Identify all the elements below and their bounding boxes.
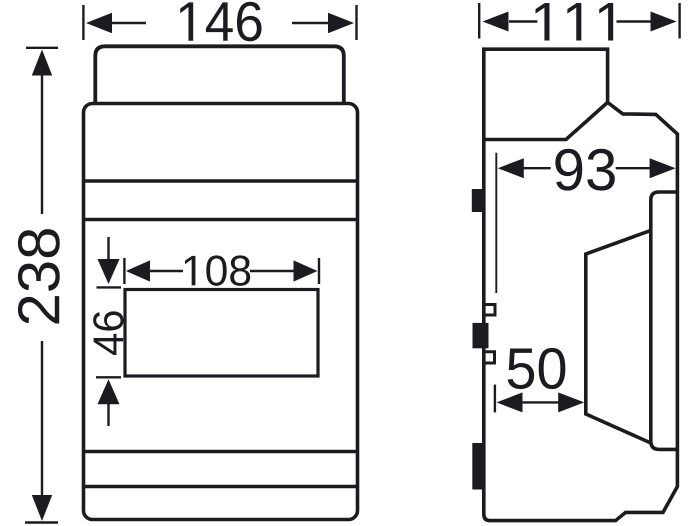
label 238 <box>18 229 60 323</box>
dim 111 arrow left <box>483 12 509 32</box>
rail line 2 <box>84 218 358 222</box>
dim 93 arrow right <box>650 158 676 178</box>
dim 146 tick left <box>82 5 84 40</box>
dim 146 arrow right <box>328 13 354 33</box>
dim 146 line left <box>111 22 146 24</box>
dim 50 tick <box>494 385 496 413</box>
side view cover strip <box>651 192 678 449</box>
wall tab 3 <box>472 443 483 490</box>
dim 111 line left <box>509 20 537 22</box>
dim 238 line top <box>41 74 43 214</box>
dim 50 arrow right <box>558 392 584 412</box>
dim 50 line <box>521 401 560 403</box>
dim 46 lower ext line <box>107 404 109 427</box>
dim 108 arrow right <box>294 260 318 281</box>
window cutout <box>125 290 318 377</box>
dim 238 line bottom <box>41 341 43 496</box>
notch 1 <box>484 305 495 316</box>
label 46 <box>93 311 123 355</box>
rail line 3 <box>84 450 358 454</box>
dim 46 upper ext line <box>107 237 109 260</box>
dim 146 tick right <box>355 5 357 40</box>
side view lid joint line <box>484 102 608 139</box>
label 93 <box>555 149 614 191</box>
side view outer profile <box>484 49 678 520</box>
wall tab 2 <box>473 323 489 348</box>
enclosure body (front view) <box>84 104 358 520</box>
rail line 1 <box>84 179 358 183</box>
dim 146 arrow left <box>86 13 112 33</box>
enclosure lid (front view) <box>95 46 343 103</box>
ext line 93 <box>495 153 497 293</box>
dim 146 line right <box>292 22 329 24</box>
dim 108 line left <box>149 270 183 272</box>
wall tab 1 <box>472 189 484 212</box>
dim 93 line left <box>523 167 551 169</box>
dim 46 arrow down <box>98 259 120 284</box>
dim 238 arrow down <box>32 495 52 521</box>
rail line 4 <box>84 485 358 489</box>
dim 93 line right <box>616 167 651 169</box>
label 146 <box>180 2 261 42</box>
dim 111 tick left <box>478 3 480 39</box>
dim 108 tick right <box>318 258 320 284</box>
dim 46 arrow up <box>98 379 120 404</box>
dim 238 tick bottom <box>25 521 58 523</box>
notch 2 <box>484 352 495 363</box>
label 50 <box>508 348 566 389</box>
dim 238 arrow up <box>32 50 52 76</box>
dim 238 tick top <box>26 47 58 49</box>
dim 108 tick left <box>123 258 125 284</box>
dim 108 line right <box>250 270 295 272</box>
label 111 <box>536 3 614 40</box>
dim 111 line right <box>617 20 652 22</box>
side view door trapezoid <box>586 230 651 443</box>
dim 111 tick right <box>678 3 680 39</box>
dim 50 arrow left <box>497 392 523 412</box>
dim 93 arrow left <box>498 158 524 178</box>
dim 108 arrow left <box>126 260 150 281</box>
dim 111 arrow right <box>651 12 677 32</box>
dim 46 tick top <box>97 286 122 288</box>
label 108 <box>185 255 250 285</box>
dim 46 tick bottom <box>96 376 121 378</box>
